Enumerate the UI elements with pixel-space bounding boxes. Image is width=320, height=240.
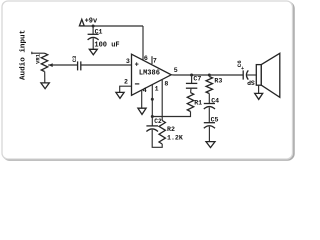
svg-text:+: + bbox=[241, 66, 244, 72]
ground below C1 bbox=[89, 49, 97, 55]
capacitor C2 bbox=[151, 117, 153, 126]
wire R3 to C4 bbox=[208, 94, 210, 104]
svg-text:Audio input: Audio input bbox=[19, 30, 27, 80]
wire C2 bottom loop to R2 bottom bbox=[152, 130, 162, 148]
svg-text:1.2K: 1.2K bbox=[167, 134, 183, 141]
resistor R1 bbox=[190, 88, 192, 92]
wire C4 to C5 bbox=[208, 107, 210, 122]
node output-C7 junction bbox=[190, 74, 193, 77]
capacitor C1 bbox=[88, 33, 99, 35]
pin 6 wire bbox=[142, 26, 144, 60]
node input terminal tick bbox=[31, 52, 33, 55]
svg-text:VR1: VR1 bbox=[35, 53, 42, 64]
wire C5 to ground bbox=[208, 127, 210, 142]
svg-text:5: 5 bbox=[174, 67, 178, 74]
svg-text:R2: R2 bbox=[167, 126, 175, 133]
wire rail to C1 bbox=[92, 26, 94, 34]
wire +9v rail bbox=[80, 25, 143, 27]
svg-text:C4: C4 bbox=[211, 98, 219, 105]
VR1 wiper arrow bbox=[48, 63, 52, 67]
pin 2 wire to ground bbox=[120, 86, 132, 92]
wire wiper to C3 bbox=[48, 64, 77, 66]
pin 8 wire down to R2 bbox=[161, 80, 163, 121]
node pin1 feedback junction bbox=[151, 115, 154, 118]
svg-text:C2: C2 bbox=[154, 118, 162, 125]
resistor R3 bbox=[208, 75, 210, 77]
svg-text:+9v: +9v bbox=[85, 18, 98, 26]
speaker SP bbox=[256, 65, 261, 86]
svg-text:6: 6 bbox=[144, 55, 148, 62]
svg-text:C7: C7 bbox=[193, 76, 201, 83]
ground at pin 2 bbox=[116, 92, 124, 98]
wire C1 to ground bbox=[92, 38, 94, 49]
wire C3 to pin3 bbox=[81, 64, 132, 66]
svg-text:C3: C3 bbox=[71, 55, 78, 62]
svg-text:2: 2 bbox=[124, 78, 128, 85]
card bbox=[2, 1, 293, 159]
power +9v terminal bbox=[79, 19, 84, 26]
svg-text:C1: C1 bbox=[95, 29, 103, 36]
node rail-C1 junction bbox=[92, 25, 95, 28]
pin 5 output wire bbox=[171, 74, 243, 76]
svg-text:3: 3 bbox=[126, 58, 130, 65]
pin 1 wire bbox=[151, 85, 153, 117]
svg-text:1: 1 bbox=[155, 86, 159, 93]
svg-text:C5: C5 bbox=[211, 117, 219, 124]
ground below C5 bbox=[206, 142, 215, 148]
capacitor C3 bbox=[77, 61, 79, 70]
ground below VR1 bbox=[41, 83, 49, 89]
svg-text:4: 4 bbox=[143, 87, 147, 94]
wire C6 to speaker bbox=[247, 74, 256, 76]
node output-R3 junction bbox=[208, 74, 211, 77]
card shadow bbox=[4, 3, 294, 160]
ground at pin 4 bbox=[138, 108, 146, 114]
capacitor C7 bbox=[191, 75, 193, 83]
ground below speaker bbox=[255, 93, 263, 99]
svg-text:8: 8 bbox=[164, 80, 168, 87]
wire input terminal to VR1 top bbox=[32, 52, 45, 54]
svg-text:SP: SP bbox=[247, 78, 255, 85]
svg-text:R1: R1 bbox=[194, 99, 202, 106]
svg-text:LM386: LM386 bbox=[139, 69, 160, 77]
capacitor C5 bbox=[204, 122, 215, 124]
potentiometer VR1 bbox=[41, 53, 47, 71]
svg-text:7: 7 bbox=[153, 57, 157, 64]
wire speaker to ground bbox=[258, 85, 260, 93]
wire R1 bottom feedback to pin1 bbox=[152, 112, 190, 117]
resistor R2 bbox=[159, 121, 165, 145]
wire VR1 bottom bbox=[44, 72, 46, 83]
capacitor C6 bbox=[242, 70, 244, 79]
svg-text:100 uF: 100 uF bbox=[94, 41, 119, 49]
pin 7 stub bbox=[151, 56, 153, 64]
pin 4 wire bbox=[141, 90, 143, 108]
op-amp U1 LM386 (triangle with + and - inputs) bbox=[132, 54, 172, 95]
svg-text:R3: R3 bbox=[214, 78, 222, 85]
node on pin1 wire bbox=[151, 98, 154, 101]
capacitor C4 bbox=[204, 103, 215, 105]
